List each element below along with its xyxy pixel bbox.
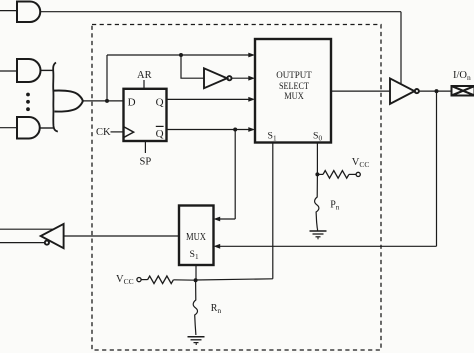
wire: into bottom MUX U5 top input xyxy=(219,218,235,220)
node: junction on top feed line xyxy=(179,53,183,57)
label AR + stub xyxy=(137,70,152,89)
svg-text:AR: AR xyxy=(137,70,152,81)
svg-text:CK: CK xyxy=(96,127,111,138)
ellipsis dots (more AND gates) xyxy=(26,93,30,112)
node: S1 / R_n junction xyxy=(194,278,198,282)
resistor to Vcc (bottom pull-up zigzag) xyxy=(116,274,196,286)
node: D-input junction xyxy=(105,99,109,103)
wire: U5 output to input buffer U6 xyxy=(64,235,179,237)
wire: Qbar branch down xyxy=(234,130,236,220)
inverter U2 xyxy=(204,68,231,88)
tri-state buffer U4 xyxy=(390,78,419,104)
arrowhead input A xyxy=(248,53,255,58)
wire: U3 select S0 drop xyxy=(316,143,318,175)
OUTPUT SELECT MUX U3 xyxy=(255,39,331,143)
resistor to Vcc (top pull-up zigzag) xyxy=(317,157,369,178)
wire: G2 output to product-term brace xyxy=(41,69,54,71)
wire: G3 output to product-term brace xyxy=(40,127,54,129)
dashed macrocell boundary xyxy=(92,25,381,351)
node: S0 / P_n junction xyxy=(315,172,319,176)
svg-text:Q: Q xyxy=(156,96,164,108)
resistor P_n (vertical squiggle) xyxy=(315,176,340,229)
input buffer U6 (points left) xyxy=(41,224,64,248)
wire: G2 input xyxy=(0,70,17,72)
arrowhead U5 input 2 xyxy=(214,244,221,249)
wire: enable drop to tri-state buffer U4 xyxy=(400,12,402,84)
arrowhead input D xyxy=(248,127,255,132)
arrowhead input B xyxy=(248,76,255,81)
wire: Qbar to MUX input D xyxy=(167,129,250,131)
wire: U3 output to buffer U4 xyxy=(331,90,390,92)
wire: U5 select S1 drop xyxy=(195,265,197,280)
I/O pad xyxy=(452,70,474,96)
D flip-flop U1 xyxy=(124,89,167,141)
svg-text:Q: Q xyxy=(156,128,164,140)
wire: S1 link to R_n node xyxy=(196,279,273,280)
wire: U3 select S1 drop xyxy=(272,143,274,279)
svg-text:D: D xyxy=(128,96,136,108)
AND gate G1 (top left, clipped at top) xyxy=(17,2,40,23)
arrowhead U5 input 1 xyxy=(214,217,221,222)
svg-text:MUX: MUX xyxy=(186,232,207,243)
Vcc terminal xyxy=(356,172,360,176)
wire: riser from D node xyxy=(106,55,108,101)
wire: buffer output to pad xyxy=(419,90,451,92)
node: Qbar branch junction xyxy=(233,128,237,132)
product-term brace (wavy collector line) xyxy=(53,63,58,132)
Vcc terminal xyxy=(137,278,141,282)
wire: G1 output / enable net (top) xyxy=(40,11,401,13)
wire: G3 input xyxy=(0,127,17,129)
wire: U6 enable to bubble xyxy=(0,242,45,244)
svg-text:SP: SP xyxy=(140,157,152,168)
wire: feedback from I/O node down xyxy=(436,91,438,246)
wire: feedback left to bottom MUX U5 input 2 xyxy=(219,245,437,247)
AND gate G3 xyxy=(17,117,40,139)
wire: Q to MUX input C xyxy=(167,98,250,100)
wire: OR output to node D xyxy=(83,100,107,102)
svg-text:OUTPUT: OUTPUT xyxy=(276,70,312,81)
wire: G1 input xyxy=(0,10,17,12)
arrowhead input C xyxy=(248,97,255,102)
wire: top feed line into OUTPUT SELECT MUX input A xyxy=(107,54,249,56)
wire: drop from top line to inverter U2 xyxy=(181,55,204,78)
node: I/O junction xyxy=(435,89,439,93)
MUX U5 (feedback mux) xyxy=(179,206,214,266)
label CK + stub xyxy=(96,127,124,138)
ground (P_n) xyxy=(310,229,327,240)
wire: U6 upper-left output xyxy=(0,228,53,230)
resistor R_n (vertical squiggle) xyxy=(193,280,221,335)
AND gate G2 xyxy=(17,59,41,82)
OR gate G4 xyxy=(54,91,83,112)
svg-text:MUX: MUX xyxy=(284,91,304,102)
wire: node to FF D input xyxy=(107,100,124,102)
label SP + stub xyxy=(140,141,152,168)
ground (R_n) xyxy=(188,337,205,345)
wire: inverter output to MUX input B xyxy=(232,77,250,79)
